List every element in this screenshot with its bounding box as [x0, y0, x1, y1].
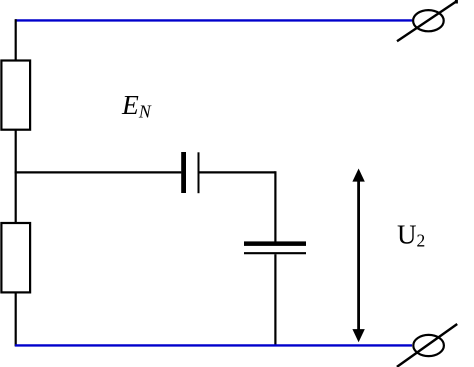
wire middle horizontal (node to C1) [15, 171, 182, 173]
wire left vertical bottom segment [15, 292, 17, 346]
terminal top-right [397, 0, 457, 41]
wire left vertical top segment [15, 19, 17, 61]
resistor R1 [1, 61, 30, 130]
svg-text:U2: U2 [397, 220, 425, 251]
resistor R2 [1, 223, 30, 292]
terminal bottom-right [397, 324, 457, 367]
capacitor C2 (shunt) [244, 241, 306, 253]
wire C1 to corner [200, 171, 276, 173]
wire left vertical middle segment [15, 130, 17, 224]
arrow U2 (double-headed) [352, 169, 364, 343]
wire corner down to C2 [274, 171, 276, 241]
wire C2 down to bottom bus [274, 254, 276, 346]
wire top bus (blue) [15, 19, 412, 21]
capacitor C1 (series) [181, 152, 198, 193]
svg-text:EN: EN [121, 89, 152, 122]
wire bottom bus (blue) [15, 344, 412, 346]
